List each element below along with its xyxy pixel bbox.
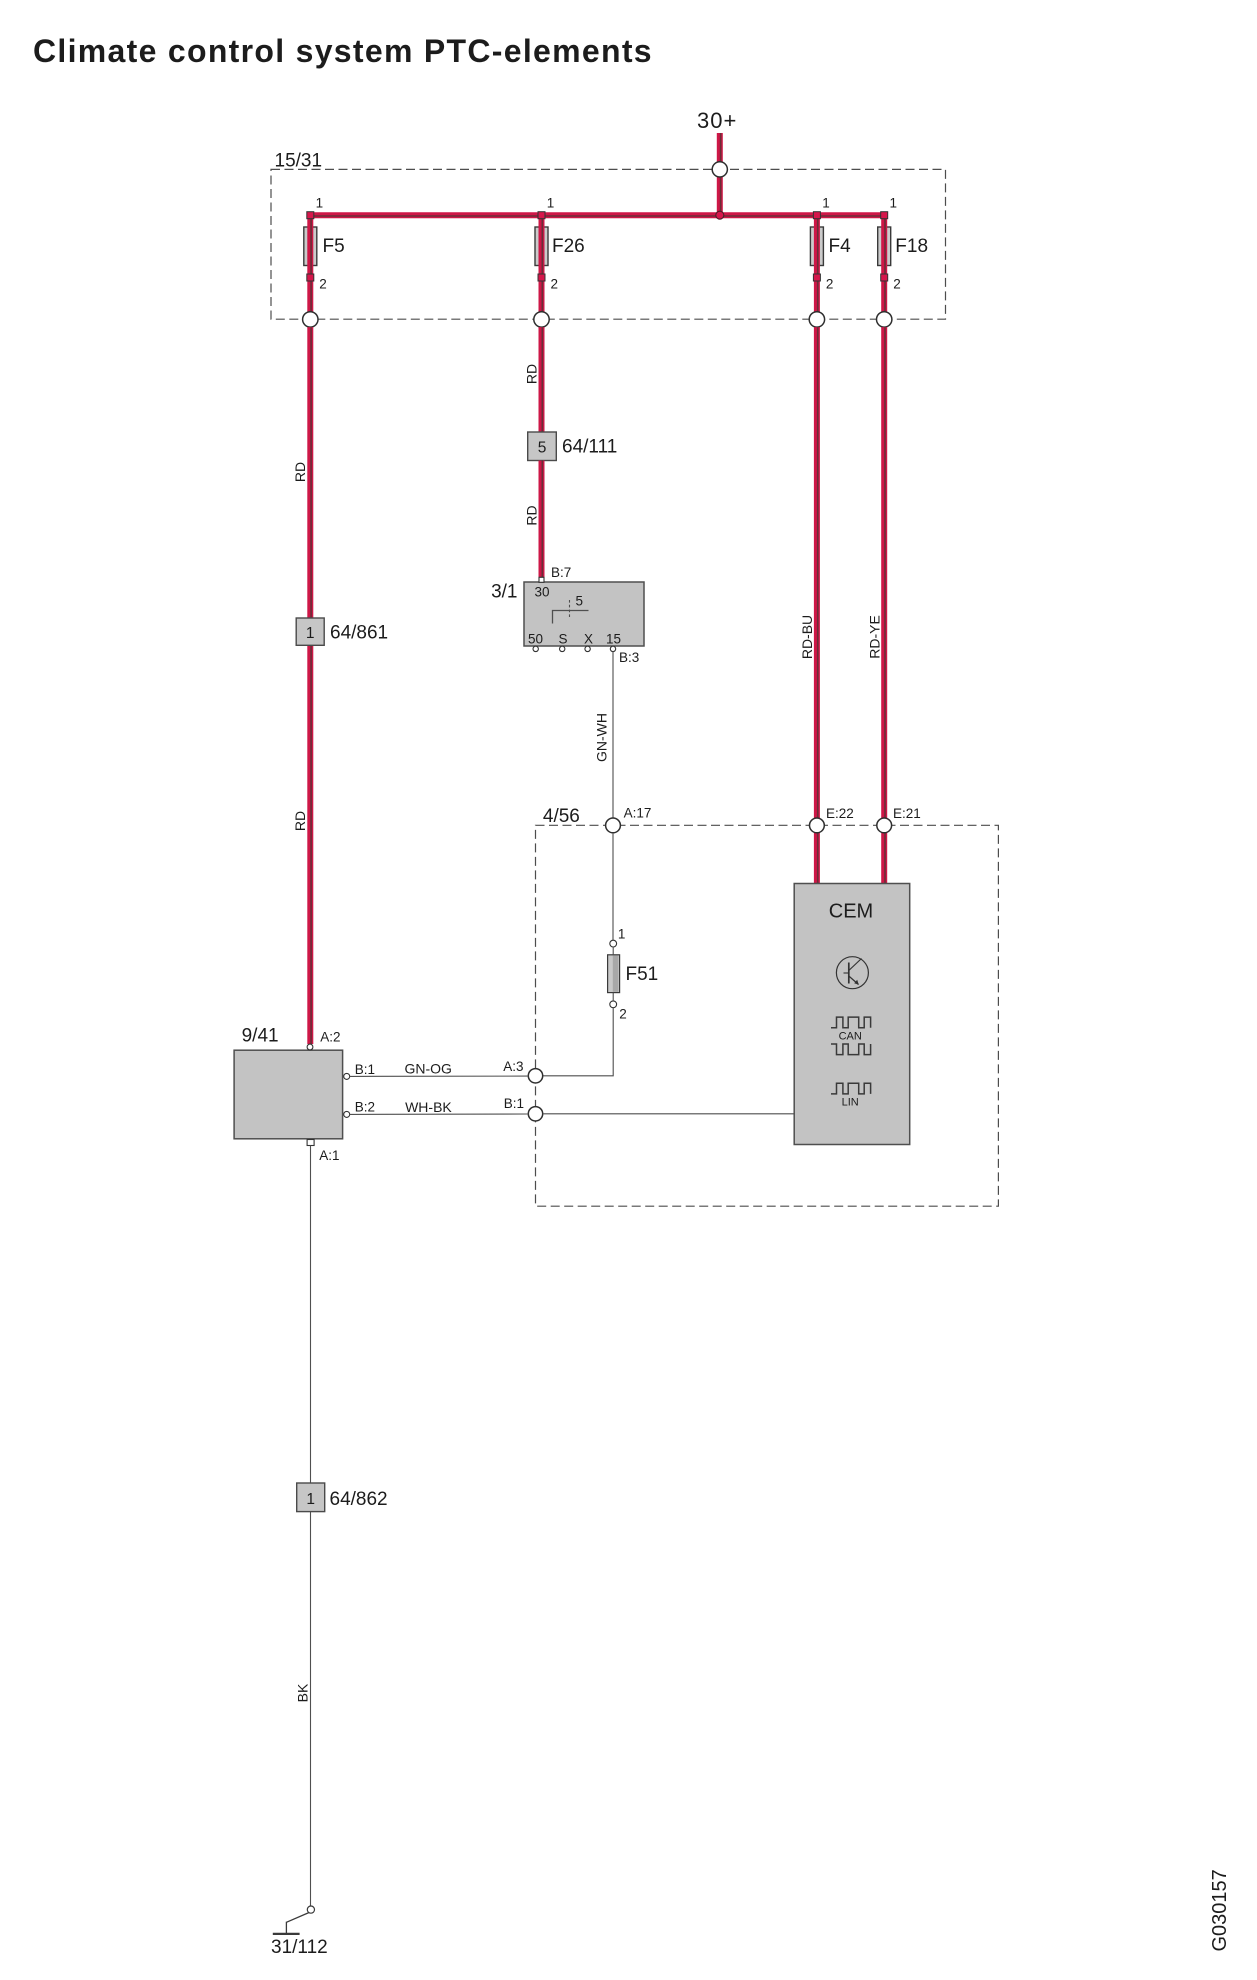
junction 30+ at fusebox edge: [712, 162, 727, 177]
wire B:1 to CEM: [543, 1113, 795, 1115]
svg-text:64/111: 64/111: [562, 437, 617, 458]
wire bus: [310, 212, 884, 219]
node 30+: [697, 108, 737, 133]
svg-text:15: 15: [606, 632, 621, 647]
svg-text:RD: RD: [292, 811, 308, 831]
svg-text:1: 1: [547, 196, 555, 211]
connector 64/111: [528, 432, 618, 461]
svg-text:A:1: A:1: [319, 1148, 339, 1163]
wire GN-OG: [350, 1061, 529, 1077]
svg-text:CEM: CEM: [829, 901, 873, 923]
svg-text:15/31: 15/31: [275, 151, 323, 172]
svg-text:RD-BU: RD-BU: [799, 615, 815, 659]
connector 64/861: [296, 618, 388, 645]
svg-text:RD: RD: [523, 364, 539, 384]
svg-text:1: 1: [890, 196, 898, 211]
junction 30+ on bus: [716, 211, 724, 219]
svg-text:GN-OG: GN-OG: [405, 1061, 452, 1077]
svg-text:1: 1: [618, 927, 626, 942]
svg-text:2: 2: [619, 1006, 627, 1021]
junction A:17: [606, 806, 652, 833]
fuse F51: [608, 927, 659, 1022]
svg-text:F26: F26: [552, 236, 585, 257]
svg-text:F51: F51: [626, 964, 659, 985]
wire F51 to A:3: [543, 1008, 613, 1076]
svg-text:B:2: B:2: [355, 1099, 375, 1114]
svg-text:50: 50: [528, 632, 543, 647]
svg-text:F5: F5: [323, 236, 345, 257]
fuse F5: [304, 196, 345, 320]
wire RD-YE F18 to CEM: [867, 327, 886, 883]
connector 64/862: [297, 1483, 388, 1512]
fuse F26: [535, 196, 585, 320]
svg-text:5: 5: [576, 594, 584, 609]
junction F4 pin 2: [809, 312, 824, 327]
svg-text:S: S: [558, 632, 567, 647]
svg-text:30+: 30+: [697, 108, 737, 133]
wire GN-WH relay to A:17: [594, 652, 614, 818]
svg-text:2: 2: [893, 277, 901, 292]
svg-text:2: 2: [551, 277, 559, 292]
svg-text:1: 1: [306, 1491, 315, 1508]
svg-text:31/112: 31/112: [271, 1937, 328, 1958]
drawing number G030157: [1209, 1869, 1231, 1951]
svg-text:30: 30: [535, 585, 550, 600]
wire RD-BU F4 to CEM: [799, 327, 818, 883]
fusebox 15/31: [271, 151, 946, 320]
junction A:3: [503, 1059, 542, 1083]
svg-text:E:21: E:21: [893, 806, 921, 821]
svg-text:9/41: 9/41: [242, 1025, 279, 1046]
pin B:2 of 9/41: [344, 1099, 375, 1117]
svg-text:E:22: E:22: [826, 806, 854, 821]
svg-text:G030157: G030157: [1209, 1869, 1231, 1951]
svg-text:3/1: 3/1: [491, 582, 517, 603]
pin A:1 of 9/41: [307, 1140, 339, 1164]
wire A:17 to F51: [612, 833, 614, 940]
svg-text:B:3: B:3: [619, 650, 639, 665]
svg-text:64/861: 64/861: [330, 623, 388, 644]
svg-text:2: 2: [319, 277, 327, 292]
svg-text:F18: F18: [895, 236, 928, 257]
svg-text:RD-YE: RD-YE: [867, 615, 883, 659]
junction B:1: [504, 1096, 543, 1121]
control module CEM: [794, 884, 910, 1145]
svg-text:1: 1: [822, 196, 830, 211]
CAN symbol in CEM: [831, 1017, 871, 1055]
junction E:22: [810, 806, 854, 833]
pin B:1 of 9/41: [344, 1062, 375, 1080]
svg-text:64/862: 64/862: [330, 1489, 388, 1510]
svg-text:CAN: CAN: [839, 1030, 862, 1042]
junction F5 pin 2: [303, 312, 318, 327]
wire WH-BK: [350, 1099, 529, 1115]
title: [33, 33, 653, 69]
transistor symbol in CEM: [836, 957, 868, 989]
svg-text:BK: BK: [295, 1683, 311, 1702]
svg-text:LIN: LIN: [842, 1097, 859, 1109]
svg-text:5: 5: [538, 440, 547, 457]
svg-text:1: 1: [306, 625, 315, 642]
svg-text:B:7: B:7: [551, 565, 571, 580]
junction F26 pin 2: [534, 312, 549, 327]
junction E:21: [877, 806, 921, 833]
pin A:2 of 9/41: [307, 1029, 340, 1050]
svg-text:A:3: A:3: [503, 1059, 523, 1074]
svg-text:WH-BK: WH-BK: [405, 1099, 452, 1115]
fuse F18: [878, 196, 928, 320]
svg-text:X: X: [584, 632, 593, 647]
svg-text:1: 1: [316, 196, 324, 211]
fuse F4: [810, 196, 851, 320]
svg-text:F4: F4: [829, 236, 852, 257]
ground 31/112: [271, 1906, 328, 1958]
wire RD F26 to 64/111: [523, 327, 542, 432]
component 9/41: [234, 1025, 343, 1138]
LIN symbol in CEM: [831, 1083, 871, 1108]
svg-text:2: 2: [826, 277, 834, 292]
svg-text:Climate control system PTC-ele: Climate control system PTC-elements: [33, 33, 653, 69]
svg-text:4/56: 4/56: [543, 806, 580, 827]
svg-text:B:1: B:1: [355, 1062, 375, 1077]
wire RD F5 to 9/41: [292, 327, 311, 1044]
svg-text:RD: RD: [292, 462, 308, 482]
junction F18 pin 2: [877, 312, 892, 327]
svg-text:RD: RD: [523, 505, 539, 525]
wire BK 9/41 to ground: [295, 1146, 311, 1907]
relay 3/1: [491, 565, 644, 665]
wire 30+ supply: [717, 133, 724, 215]
svg-text:GN-WH: GN-WH: [594, 713, 610, 762]
svg-text:A:17: A:17: [624, 806, 652, 821]
svg-text:B:1: B:1: [504, 1096, 524, 1111]
wire RD 64/111 to relay: [523, 461, 542, 578]
svg-text:A:2: A:2: [320, 1029, 340, 1044]
control module box 4/56: [536, 806, 999, 1206]
